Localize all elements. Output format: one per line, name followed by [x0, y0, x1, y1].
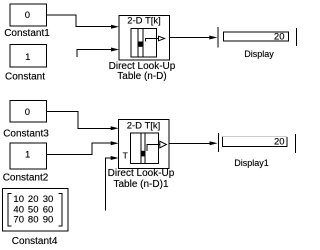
svg-text:70: 70: [13, 215, 24, 226]
svg-text:Direct Look-Up: Direct Look-Up: [108, 168, 175, 179]
svg-text:Table (n-D): Table (n-D): [117, 71, 166, 82]
svg-text:Constant4: Constant4: [12, 236, 58, 247]
svg-text:90: 90: [43, 215, 54, 226]
svg-text:20: 20: [274, 32, 285, 43]
svg-text:80: 80: [28, 215, 39, 226]
svg-text:20: 20: [274, 136, 285, 147]
svg-text:Display1: Display1: [234, 158, 269, 168]
svg-text:0: 0: [25, 10, 30, 21]
svg-text:2-D T[k]: 2-D T[k]: [127, 120, 161, 131]
svg-text:0: 0: [25, 107, 30, 118]
svg-text:Constant1: Constant1: [4, 28, 50, 39]
svg-text:1: 1: [25, 52, 30, 63]
svg-text:Constant3: Constant3: [3, 129, 49, 140]
svg-text:2-D T[k]: 2-D T[k]: [127, 15, 161, 26]
svg-text:Table (n-D)1: Table (n-D)1: [113, 179, 168, 190]
svg-text:Constant: Constant: [5, 72, 45, 83]
svg-text:Constant2: Constant2: [3, 173, 49, 184]
svg-text:1: 1: [25, 150, 30, 161]
svg-text:Display: Display: [244, 49, 274, 59]
svg-text:T: T: [123, 151, 128, 161]
